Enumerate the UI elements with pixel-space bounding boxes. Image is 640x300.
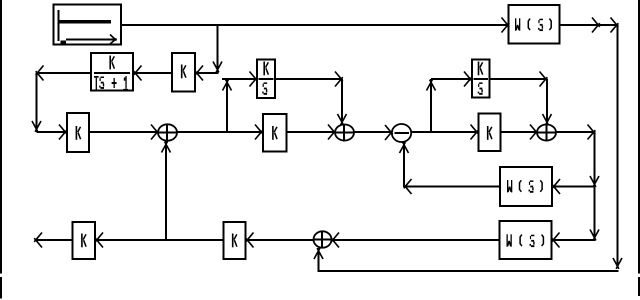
wire into KS1 [222, 78, 258, 80]
arrow up into S5 [314, 248, 323, 259]
wire down into S2 [341, 79, 343, 125]
arrow into K3a [59, 125, 67, 140]
wire U1 output to right corner [560, 24, 619, 26]
wire S2 to S3 [354, 131, 392, 133]
wire tap up at x431 [430, 79, 432, 132]
arrow at corner [588, 125, 596, 140]
block U1 W(S) [509, 5, 560, 44]
wire W5 output to S5 [332, 239, 500, 241]
block W5 W(S) [500, 221, 552, 259]
wire K5a output left [35, 239, 73, 241]
arrow at left corner [36, 66, 44, 81]
wire into KS2 [431, 78, 473, 80]
arrow down before W4 tee [590, 176, 599, 187]
arrow at corner [611, 18, 619, 33]
arrow into S5 [331, 233, 339, 248]
arrow up at bend [223, 80, 232, 91]
wire S1 to K3b [177, 131, 263, 133]
wire right inner vertical down [594, 132, 596, 240]
wire bottom feedback [318, 270, 619, 272]
wire W4 output left [404, 186, 500, 188]
arrow up into S1 [162, 142, 171, 153]
wire left vertical down [36, 73, 38, 132]
summing junction S3 (minus) [392, 124, 411, 142]
summing junction S5 [314, 231, 332, 248]
wire S4 output to corner [556, 131, 596, 133]
arrow at left end [34, 233, 42, 248]
wire KS1 output to corner [275, 78, 343, 80]
wire into K3a [37, 131, 67, 133]
wire K2 to TS1 [136, 72, 172, 74]
wire S5 to K5b [247, 239, 314, 241]
wire K5b to K5a [96, 239, 224, 241]
arrow into K2 [195, 66, 203, 81]
arrow down at end [613, 258, 622, 269]
wire into K2 [197, 72, 219, 74]
wire into W5 [554, 239, 596, 241]
wire up from bottom into S5 [318, 248, 320, 272]
block K3b [263, 114, 287, 152]
arrow into K5a [95, 233, 103, 248]
arrow into K3b [255, 125, 263, 140]
arrow into W5 [552, 233, 560, 248]
wire into W4 [553, 186, 596, 188]
summing junction S4 [537, 125, 556, 142]
block K3c [479, 114, 501, 152]
block W4 W(S) [500, 167, 552, 206]
arrow into KS2 [464, 72, 472, 87]
arrow into S1 [151, 125, 159, 140]
right screen border [638, 0, 640, 296]
wire K3c to S4 [501, 131, 538, 133]
arrow into S2 [328, 125, 336, 140]
arrow into W4 [552, 179, 560, 194]
arrow up into S3 [400, 142, 409, 153]
block K5b [224, 222, 246, 259]
arrow into S3 [385, 125, 393, 140]
wire tap up at x166 to S1 [165, 141, 167, 241]
summing junction S1 [158, 124, 177, 143]
arrow on output wire [592, 18, 600, 33]
wire tap up at x227 [226, 79, 228, 132]
wire K3a to sum S1 [89, 131, 159, 133]
block KS2 K/S [472, 60, 490, 98]
arrow into KS1 [250, 72, 258, 87]
wire down into S4 [546, 79, 548, 125]
arrow down at end [590, 230, 599, 241]
arrow at corner [404, 179, 412, 194]
wire tap down at x217 [217, 25, 219, 72]
arrow up at bend [427, 80, 436, 91]
arrow down into S4 [543, 114, 552, 125]
wire up into S3 [403, 142, 405, 187]
block K2 [172, 53, 195, 92]
block K3a [67, 113, 89, 152]
summing junction S2 [335, 125, 354, 142]
arrow into K5b [246, 233, 254, 248]
arrow down into row2 [213, 62, 222, 73]
arrow into S4 [530, 125, 538, 140]
left screen border [0, 0, 2, 299]
arrow down at bend [32, 121, 41, 132]
wire source to W(S) U1 [122, 24, 509, 26]
arrow into U1 [502, 18, 510, 33]
wire S3 to K3c [411, 131, 478, 133]
block K5a [73, 222, 96, 259]
arrow down into S2 [338, 114, 347, 125]
wire KS2 output to corner [490, 78, 548, 80]
block TS1 K/(TS+1) [91, 53, 133, 91]
arrow at corner [540, 72, 548, 87]
arrow at corner [335, 72, 343, 87]
wire K3b to S2 [287, 131, 336, 133]
source block G1 (step input with plot) [54, 5, 122, 46]
wire right vertical down [617, 25, 619, 268]
block KS1 K/S [257, 60, 275, 99]
wire TS1 output left [37, 72, 92, 74]
arrow into K3c [471, 125, 479, 140]
arrow into TS1 [134, 66, 142, 81]
